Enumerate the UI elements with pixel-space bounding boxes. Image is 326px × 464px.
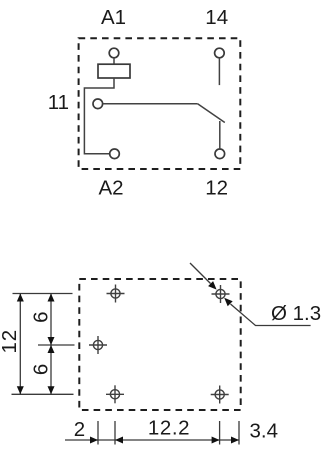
svg-text:12: 12 bbox=[205, 176, 228, 199]
dimension line 12 bbox=[19, 294, 21, 395]
hole bottom-left bbox=[106, 385, 124, 403]
wire A1 to coil bbox=[113, 58, 115, 64]
arrow 6 bottom bbox=[48, 386, 55, 394]
ext line hole BR bbox=[219, 421, 221, 445]
relay outline (dashed box, schematic) bbox=[79, 38, 241, 169]
wire 11 common bbox=[103, 103, 198, 105]
wire 14 contact bbox=[218, 58, 220, 85]
arrow 2 left bbox=[90, 437, 98, 444]
ext line hole BL bbox=[114, 421, 116, 445]
terminal 11 bbox=[93, 99, 103, 109]
wire 12 contact bbox=[219, 121, 221, 149]
svg-text:12: 12 bbox=[0, 329, 21, 353]
leader line upper segment bbox=[190, 263, 211, 284]
ext line hole ML bbox=[97, 421, 99, 445]
hole middle-left bbox=[89, 336, 107, 354]
arrow 12.2 left bbox=[115, 437, 123, 444]
switch blade bbox=[198, 104, 225, 123]
hole top-left bbox=[107, 285, 125, 303]
leader line lower segment bbox=[231, 304, 311, 326]
svg-text:A1: A1 bbox=[101, 6, 126, 29]
arrow 12 top bbox=[17, 294, 24, 302]
arrow 12 bottom bbox=[17, 386, 24, 394]
terminal 12 bbox=[215, 149, 225, 159]
pcb outline (dashed box, drilling plan) bbox=[79, 279, 240, 410]
ext line right edge bbox=[238, 421, 240, 445]
terminal 14 bbox=[215, 48, 225, 58]
terminal A1 bbox=[109, 48, 119, 58]
svg-text:14: 14 bbox=[205, 6, 228, 29]
terminal A2 bbox=[110, 149, 120, 159]
svg-text:6: 6 bbox=[29, 364, 52, 375]
hole bottom-right bbox=[211, 386, 229, 404]
arrow 12.2 right bbox=[212, 437, 220, 444]
svg-text:11: 11 bbox=[48, 91, 69, 114]
bottom dimension line bbox=[65, 439, 239, 441]
extension line middle row bbox=[38, 344, 75, 346]
svg-text:2: 2 bbox=[74, 418, 85, 441]
arrow 3.4 right bbox=[231, 437, 239, 444]
svg-text:6: 6 bbox=[29, 311, 52, 322]
coil K1 bbox=[98, 64, 130, 78]
hole top-right bbox=[212, 285, 230, 303]
extension line top row bbox=[13, 293, 73, 295]
svg-text:3.4: 3.4 bbox=[250, 420, 279, 443]
svg-text:A2: A2 bbox=[99, 176, 124, 199]
arrow 6 mid up bbox=[48, 345, 55, 353]
arrow 6 mid down bbox=[48, 337, 55, 345]
leader arrow lower bbox=[224, 298, 233, 307]
arrow 6 top bbox=[48, 294, 55, 302]
svg-text:12.2: 12.2 bbox=[148, 416, 190, 439]
wire coil to A2 bbox=[84, 78, 114, 154]
svg-text:Ø 1.3: Ø 1.3 bbox=[271, 302, 321, 325]
extension line bottom row bbox=[12, 393, 74, 395]
dimension line 6/6 bbox=[50, 294, 52, 395]
leader arrow upper bbox=[208, 281, 217, 290]
